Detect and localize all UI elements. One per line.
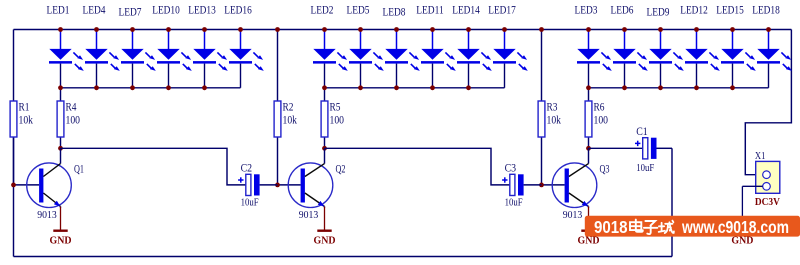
svg-text:LED18: LED18 — [752, 3, 780, 17]
svg-text:C1: C1 — [636, 126, 648, 138]
junction LED1 anode on +V rail — [58, 27, 63, 32]
wire R6 bottom to collector node — [588, 137, 590, 148]
LED LED6 — [613, 30, 648, 88]
svg-text:LED1: LED1 — [47, 3, 70, 17]
svg-text:10uF: 10uF — [241, 197, 259, 209]
connector X1 body — [756, 161, 780, 193]
junction LED9 anode on +V rail — [658, 27, 663, 32]
svg-text:LED8: LED8 — [383, 5, 406, 19]
svg-text:Q3: Q3 — [600, 163, 610, 175]
svg-text:LED3: LED3 — [575, 3, 598, 17]
wire base node to Q1 base — [14, 184, 40, 186]
wire R2 top to +V rail — [277, 30, 279, 102]
junction collector node Q3 — [586, 146, 591, 151]
resistor R6 body — [585, 101, 592, 137]
X1 pin 2 — [763, 183, 771, 191]
svg-text:10uF: 10uF — [636, 162, 654, 174]
electrolytic capacitor C2 10uF — [238, 174, 260, 195]
LED LED10 — [157, 30, 192, 88]
svg-text:R4: R4 — [66, 102, 77, 114]
junction LED6 cathode on rail — [622, 85, 627, 90]
svg-text:LED16: LED16 — [224, 3, 252, 17]
resistor R2 body — [274, 101, 281, 137]
junction collector node Q2 — [322, 146, 327, 151]
LED LED8 — [385, 30, 420, 88]
electrolytic capacitor C1 10uF — [635, 138, 657, 159]
svg-text:LED13: LED13 — [188, 3, 216, 17]
wire X1 pin2 to ground — [742, 185, 762, 187]
svg-text:www.c9018.com: www.c9018.com — [681, 217, 789, 237]
watermark glyph cheng — [659, 221, 674, 234]
junction R2 top on +V rail — [275, 27, 280, 32]
junction LED12 anode on +V rail — [694, 27, 699, 32]
junction LED11 cathode on rail — [430, 85, 435, 90]
wire LED group 1 cathode rail — [61, 87, 241, 89]
svg-text:X1: X1 — [755, 150, 766, 162]
svg-text:DC3V: DC3V — [755, 196, 780, 208]
wire bottom feedback rail (C1 to Q1 base) — [14, 256, 673, 258]
junction LED11 anode on +V rail — [430, 27, 435, 32]
svg-text:10uF: 10uF — [505, 197, 523, 209]
junction LED18 anode on +V rail — [766, 27, 771, 32]
wire R5 bottom to collector node — [324, 137, 326, 148]
svg-text:9018: 9018 — [594, 217, 628, 237]
wire Q2 emitter down — [324, 207, 326, 208]
svg-text:LED12: LED12 — [680, 3, 708, 17]
svg-text:R3: R3 — [547, 102, 558, 114]
svg-text:Q1: Q1 — [74, 163, 84, 175]
wire collector node down to Q3 collector — [588, 148, 590, 163]
X1 pin 1 — [763, 171, 771, 179]
wire R6 top to LED rail — [588, 88, 590, 101]
junction base node Q1 — [11, 183, 16, 188]
junction LED15 cathode on rail — [730, 85, 735, 90]
LED LED12 — [685, 30, 720, 88]
wire C1 to bottom feedback drop — [657, 147, 673, 149]
LED LED5 — [349, 30, 384, 88]
wire base node to Q3 base — [542, 184, 565, 186]
svg-text:100: 100 — [594, 115, 609, 127]
wire Q1 emitter down — [60, 207, 62, 208]
wire R2 bottom to base node — [277, 137, 279, 185]
svg-text:R2: R2 — [283, 102, 294, 114]
junction LED14 anode on +V rail — [466, 27, 471, 32]
junction LED14 cathode on rail — [466, 85, 471, 90]
junction LED7 cathode on rail — [130, 85, 135, 90]
wire Q3 emitter down — [588, 207, 590, 208]
wire collector node down to Q2 collector — [324, 148, 326, 163]
junction LED2 cathode on rail — [322, 85, 327, 90]
wire LED group 3 cathode rail — [589, 87, 769, 89]
wire Q3 collector to C1 — [589, 147, 643, 149]
watermark glyph zi — [644, 221, 658, 234]
svg-text:C2: C2 — [241, 163, 253, 175]
resistor R1 body — [10, 101, 17, 137]
svg-text:LED6: LED6 — [611, 3, 634, 17]
junction base node Q2 — [275, 183, 280, 188]
transistor Q3 9013 NPN — [552, 163, 597, 208]
svg-text:R5: R5 — [330, 102, 341, 114]
svg-text:Q2: Q2 — [336, 163, 346, 175]
junction LED10 cathode on rail — [166, 85, 171, 90]
resistor R3 body — [538, 101, 545, 137]
junction LED3 anode on +V rail — [586, 27, 591, 32]
junction LED13 anode on +V rail — [202, 27, 207, 32]
ground symbol X1 pin2 — [735, 186, 749, 230]
wire C1 output drop — [671, 148, 673, 256]
ground symbol Q3 emitter — [581, 207, 595, 231]
svg-text:LED9: LED9 — [647, 5, 670, 19]
wire R3 top to +V rail — [541, 30, 543, 102]
junction LED8 cathode on rail — [394, 85, 399, 90]
junction LED16 anode on +V rail — [238, 27, 243, 32]
wire R4 bottom to collector node — [60, 137, 62, 148]
svg-text:10k: 10k — [547, 115, 562, 127]
LED LED13 — [193, 30, 228, 88]
wire C2 to Q2 base node — [260, 184, 278, 186]
svg-text:10k: 10k — [283, 115, 298, 127]
junction LED4 cathode on rail — [94, 85, 99, 90]
electrolytic capacitor C3 10uF — [502, 174, 523, 195]
resistor R4 body — [57, 101, 64, 137]
ground symbol Q2 emitter — [317, 207, 331, 231]
LED LED14 — [457, 30, 492, 88]
junction LED15 anode on +V rail — [730, 27, 735, 32]
svg-text:R1: R1 — [19, 102, 30, 114]
svg-text:LED10: LED10 — [152, 3, 180, 17]
junction LED2 anode on +V rail — [322, 27, 327, 32]
svg-text:10k: 10k — [19, 115, 34, 127]
svg-text:GND: GND — [314, 235, 336, 247]
junction LED12 cathode on rail — [694, 85, 699, 90]
svg-text:100: 100 — [330, 115, 345, 127]
watermark banner 9018 — [585, 216, 800, 237]
junction LED5 cathode on rail — [358, 85, 363, 90]
junction LED4 anode on +V rail — [94, 27, 99, 32]
wire left edge: +V rail down through R1 to Q1 base and bottom loop — [13, 30, 15, 102]
LED LED15 — [721, 30, 756, 88]
junction collector node Q1 — [58, 146, 63, 151]
svg-text:LED11: LED11 — [416, 3, 444, 17]
junction LED5 anode on +V rail — [358, 27, 363, 32]
svg-text:LED2: LED2 — [311, 3, 334, 17]
junction LED7 anode on +V rail — [130, 27, 135, 32]
wire R3 bottom to base node — [541, 137, 543, 185]
svg-text:LED5: LED5 — [347, 3, 370, 17]
wire Q1 collector to C2 — [61, 148, 246, 185]
svg-text:LED14: LED14 — [452, 3, 480, 17]
ground symbol Q1 emitter — [53, 207, 67, 231]
junction LED17 anode on +V rail — [502, 27, 507, 32]
svg-text:R6: R6 — [594, 102, 605, 114]
svg-text:9013: 9013 — [37, 209, 57, 221]
wire base node to Q2 base — [278, 184, 301, 186]
svg-text:LED17: LED17 — [488, 3, 516, 17]
junction LED10 anode on +V rail — [166, 27, 171, 32]
junction LED9 cathode on rail — [658, 85, 663, 90]
svg-text:GND: GND — [50, 235, 72, 247]
wire LED group 2 cathode rail — [325, 87, 505, 89]
svg-text:100: 100 — [66, 115, 81, 127]
svg-text:9013: 9013 — [563, 209, 583, 221]
svg-text:C3: C3 — [505, 163, 517, 175]
junction LED3 cathode on rail — [586, 85, 591, 90]
wire R1 bottom to base node — [13, 137, 15, 185]
junction base node Q3 — [539, 183, 544, 188]
wire +V top rail — [14, 29, 792, 31]
wire C3 to Q3 base node — [524, 184, 542, 186]
resistor R5 body — [321, 101, 328, 137]
junction LED6 anode on +V rail — [622, 27, 627, 32]
wire R5 top to LED rail — [324, 88, 326, 101]
svg-text:LED15: LED15 — [716, 3, 744, 17]
LED LED16 — [229, 30, 264, 88]
LED LED11 — [421, 30, 456, 88]
watermark glyph dian — [630, 220, 643, 232]
junction LED8 anode on +V rail — [394, 27, 399, 32]
wire Q2 collector to C3 — [325, 148, 510, 185]
LED LED4 — [85, 30, 120, 88]
svg-text:LED7: LED7 — [119, 5, 142, 19]
LED LED7 — [121, 30, 156, 88]
LED LED18 — [757, 30, 792, 88]
wire collector node down to Q1 collector — [60, 148, 62, 163]
wire R4 top to LED rail — [60, 88, 62, 101]
transistor Q1 9013 NPN — [27, 163, 72, 208]
svg-text:LED4: LED4 — [83, 3, 106, 17]
LED LED3 — [577, 30, 612, 88]
junction LED1 cathode on rail — [58, 85, 63, 90]
transistor Q2 9013 NPN — [288, 163, 333, 208]
wire +V right edge down to X1 — [745, 30, 791, 175]
LED LED1 — [49, 30, 84, 88]
junction R3 top on +V rail — [539, 27, 544, 32]
junction LED13 cathode on rail — [202, 85, 207, 90]
LED LED17 — [493, 30, 528, 88]
svg-text:9013: 9013 — [299, 209, 319, 221]
LED LED2 — [313, 30, 348, 88]
LED LED9 — [649, 30, 684, 88]
